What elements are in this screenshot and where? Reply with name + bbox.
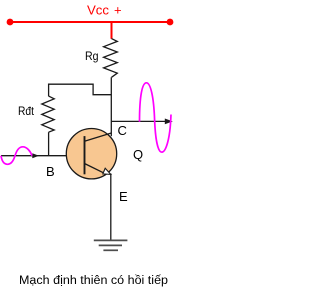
svg-text:Rđt: Rđt — [18, 104, 35, 118]
svg-text:Vcc: Vcc — [87, 3, 110, 18]
svg-text:+: + — [114, 3, 122, 18]
output signal wire — [111, 120, 171, 122]
feedback wire Rdt top to collector wire — [49, 84, 112, 96]
wire Rg to collector node — [110, 77, 112, 136]
resistor Rg — [104, 39, 118, 78]
svg-text:E: E — [119, 189, 128, 204]
rail junction dot left — [7, 19, 14, 26]
svg-text:Rg: Rg — [85, 49, 99, 63]
input sine wave — [1, 147, 32, 165]
emitter arrowhead (open) — [103, 168, 111, 174]
emitter wire to ground — [110, 174, 112, 241]
input signal wire — [1, 155, 67, 157]
resistor Rdt — [42, 96, 54, 132]
wire Vcc rail to Rg (red stub) — [111, 22, 113, 39]
transistor Q body — [66, 129, 116, 179]
rail junction dot right — [167, 19, 174, 26]
svg-text:Mạch định thiên có hồi tiếp: Mạch định thiên có hồi tiếp — [19, 275, 168, 287]
ground symbol — [94, 240, 128, 250]
wire Rdt to base node — [48, 132, 50, 156]
transistor collector lead — [85, 133, 112, 141]
transistor base bar — [84, 136, 86, 174]
svg-text:Q: Q — [133, 147, 143, 162]
Vcc + label — [87, 3, 122, 18]
svg-text:B: B — [46, 164, 55, 179]
output arrowhead — [165, 119, 173, 125]
svg-text:C: C — [118, 123, 127, 138]
input arrowhead — [32, 153, 39, 158]
Vcc power rail — [10, 21, 170, 23]
transistor emitter lead — [85, 164, 106, 174]
output sine wave — [140, 83, 172, 152]
